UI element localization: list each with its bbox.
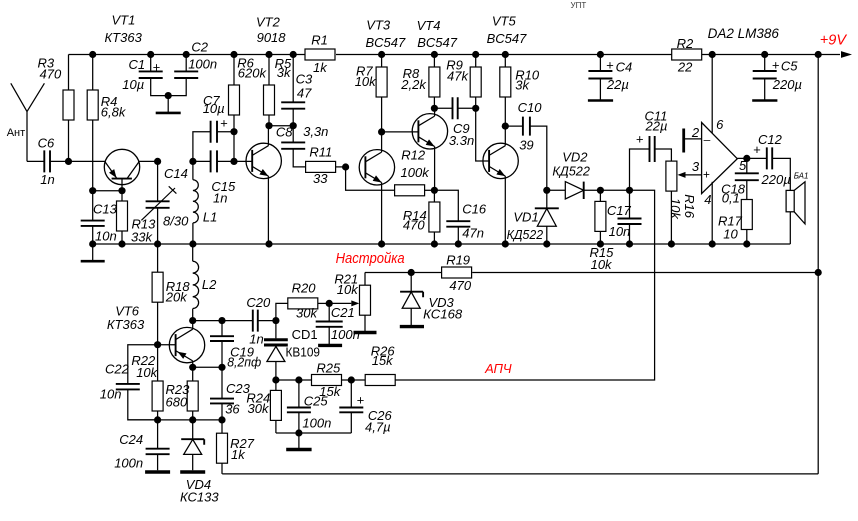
wire R20 left [276, 303, 288, 320]
wire top rail middle [336, 54, 672, 56]
wire C18 leads [746, 158, 748, 199]
wire C24 leads [157, 420, 159, 470]
node R22 bottom [154, 416, 161, 423]
node C17/C11 [626, 187, 633, 194]
wire VT6e to C19 [193, 366, 222, 368]
svg-text:R16: R16 [682, 194, 697, 219]
node C3/C8 [290, 122, 297, 129]
node bus C16 [455, 240, 462, 247]
resistor R11 [306, 161, 336, 172]
svg-text:22µ: 22µ [606, 77, 629, 92]
node CD1 top [272, 317, 279, 324]
resistor R1 [305, 49, 335, 60]
wire VT2c to C3C8 [269, 125, 293, 127]
wire tuning line [365, 272, 818, 274]
svg-text:1n: 1n [213, 190, 227, 205]
wire C14 leads [157, 161, 159, 244]
ground C4 [588, 99, 613, 102]
node C14 top [154, 158, 161, 165]
resistor R23 [187, 381, 198, 411]
svg-text:220µ: 220µ [772, 77, 802, 92]
node C1C2 gnd [165, 92, 172, 99]
wire osc tank [193, 320, 253, 322]
resistor R8 [429, 67, 440, 97]
svg-text:+9V: +9V [820, 33, 848, 49]
node R23 bottom [189, 416, 196, 423]
wire R24 node to R25 [276, 379, 312, 381]
wire C1 leads [151, 55, 169, 96]
node rail pin6 [709, 51, 716, 58]
svg-text:3.3n: 3.3n [449, 133, 474, 148]
node +9V/R19 [815, 269, 822, 276]
wire C2 leads [168, 55, 186, 96]
node C7/R6 bottom [230, 158, 237, 165]
wire R4 leads [92, 55, 94, 191]
node rail R4 [89, 51, 96, 58]
svg-text:R20: R20 [292, 281, 317, 296]
svg-text:10k: 10k [136, 365, 158, 380]
svg-text:УПТ: УПТ [571, 1, 587, 10]
wire R9 leads and VT5 base [476, 55, 489, 162]
svg-text:+: + [153, 60, 161, 75]
svg-text:2,2k: 2,2k [400, 77, 427, 92]
wire C5 leads [764, 55, 766, 100]
wire to C10 [505, 125, 523, 127]
svg-text:R1: R1 [311, 33, 328, 48]
wire R24 leads [275, 380, 277, 433]
inductor L2 [193, 261, 199, 308]
capacitor C18 [735, 173, 759, 180]
svg-text:10k: 10k [337, 282, 359, 297]
capacitor C25 [287, 408, 311, 413]
wire VT1 collector to C14 [139, 160, 158, 162]
node rail R10 [502, 51, 509, 58]
svg-text:КТ363: КТ363 [107, 317, 145, 332]
wire C12 to speaker [772, 158, 790, 190]
node rail R9 [472, 51, 479, 58]
node bus VD1 [543, 240, 550, 247]
svg-text:4,7µ: 4,7µ [365, 419, 391, 434]
node afc gnd [295, 429, 302, 436]
svg-text:C17: C17 [607, 203, 632, 218]
svg-text:C21: C21 [331, 305, 355, 320]
node rail C2 [183, 51, 190, 58]
svg-text:R25: R25 [316, 361, 341, 376]
svg-text:100k: 100k [401, 165, 431, 180]
wire VT6 base lead [158, 344, 176, 346]
wire R20 to C21 [318, 302, 329, 304]
svg-text:47k: 47k [447, 69, 469, 84]
wire C7 left lead [193, 132, 211, 162]
wire C15 to VT2 base [217, 160, 252, 162]
node rail R8 [431, 51, 438, 58]
wire to C9 [434, 107, 452, 109]
svg-text:VT1: VT1 [112, 13, 136, 28]
wire to C15 [193, 160, 211, 162]
resistor R24 [270, 390, 281, 420]
wire R11 to VT3 base [336, 166, 346, 168]
wire pin6 [711, 55, 713, 134]
node bus R13 [118, 240, 125, 247]
C14 trimmer arrow [141, 186, 176, 220]
zener VD3 [410, 273, 412, 326]
transistor VT3 [359, 150, 394, 185]
capacitor C12 [767, 147, 772, 169]
svg-text:Настройка: Настройка [336, 251, 405, 267]
svg-text:620k: 620k [238, 66, 268, 81]
svg-text:10µ: 10µ [203, 101, 225, 116]
resistor R12 [395, 185, 425, 196]
transistor VT6 [169, 327, 204, 362]
node C9/R9 [472, 105, 479, 112]
ground R21 [354, 331, 377, 334]
svg-text:VT4: VT4 [417, 18, 441, 33]
wire R7 leads [381, 55, 383, 132]
node rail C3 [290, 51, 297, 58]
svg-text:C13: C13 [93, 202, 118, 217]
svg-text:VT5: VT5 [492, 14, 517, 29]
wire R13 leads [121, 191, 123, 244]
node R3/C6 [65, 158, 72, 165]
resistor R4 [87, 90, 98, 120]
resistor R14 [429, 202, 440, 232]
resistor R13 [117, 201, 128, 231]
svg-text:1k: 1k [231, 447, 246, 462]
wire VT3 collector [381, 132, 383, 152]
wire osc bottom [128, 419, 222, 421]
resistor R22 [152, 381, 163, 411]
ground C1C2 [167, 96, 169, 113]
capacitor C7 [211, 121, 217, 143]
node rail C4 [597, 51, 604, 58]
capacitor C14 [146, 201, 170, 208]
ground C5 [752, 99, 777, 102]
node bus R16 [668, 240, 675, 247]
wire to VT4 base [382, 131, 419, 133]
node VT6 emitter [189, 364, 196, 371]
transistor VT1 [104, 149, 139, 184]
transistor VT2 [246, 143, 281, 178]
node R4/C13 [89, 187, 96, 194]
svg-text:470: 470 [449, 278, 471, 293]
svg-text:39: 39 [519, 137, 533, 152]
wire R3 leads [68, 55, 70, 162]
transistor VT4 [412, 114, 447, 149]
svg-text:КВ109: КВ109 [286, 345, 321, 360]
transistor VT5 [483, 143, 518, 178]
wire C22 leads [128, 345, 158, 420]
wire output [737, 157, 767, 159]
capacitor C17 [618, 219, 642, 225]
svg-text:8/30: 8/30 [163, 213, 189, 228]
capacitor C19 [210, 336, 234, 341]
wire pin3 [679, 174, 702, 176]
svg-text:C14: C14 [164, 166, 188, 181]
wire L2 leads [192, 244, 194, 321]
wire VT5 emitter [504, 176, 506, 244]
wire VT2 collector [267, 126, 269, 146]
ground AFC [298, 433, 300, 450]
svg-text:47n: 47n [462, 226, 484, 241]
wire R27 leads [221, 420, 223, 474]
wire C20 to CD1 [258, 320, 276, 322]
wire R8 leads [433, 55, 435, 109]
svg-text:CD1: CD1 [292, 327, 318, 342]
svg-text:0,1: 0,1 [722, 190, 740, 205]
wire R25 to R26 [342, 379, 366, 381]
node R7/VT4 base [378, 128, 385, 135]
svg-text:DA2 LM386: DA2 LM386 [708, 26, 780, 41]
capacitor C6 [44, 150, 50, 172]
svg-text:+: + [703, 167, 710, 181]
svg-text:BC547: BC547 [366, 35, 407, 50]
svg-text:C25: C25 [304, 394, 329, 409]
node C19 top [218, 317, 225, 324]
svg-text:1k: 1k [313, 60, 328, 75]
wire R15 leads [599, 190, 601, 244]
capacitor C4 [588, 71, 612, 79]
node rail right [815, 51, 822, 58]
ground C21 [318, 344, 342, 347]
node VD1/VD2 [543, 187, 550, 194]
ground VD4 [180, 470, 205, 473]
svg-text:10k: 10k [355, 74, 377, 89]
wire C4 leads [599, 55, 601, 100]
svg-text:100n: 100n [331, 327, 360, 342]
potentiometer R16 [666, 161, 677, 191]
svg-text:VT2: VT2 [256, 15, 281, 30]
wire L1 leads [192, 161, 194, 244]
wire VT4 emitter [434, 147, 436, 191]
wire VT5 collector [504, 126, 506, 146]
resistor R15 [595, 201, 606, 231]
wire ant to C6 [27, 160, 44, 162]
wire C8 leads [293, 126, 305, 167]
node rail R6 [230, 51, 237, 58]
node L2/VT6c [189, 317, 196, 324]
wire C6 to VT1 [50, 160, 105, 162]
capacitor C23 [210, 399, 234, 404]
wire R6 leads [233, 55, 235, 162]
svg-text:C4: C4 [616, 59, 633, 74]
svg-text:+: + [606, 57, 614, 72]
capacitor C22 [116, 384, 140, 390]
svg-text:КТ363: КТ363 [105, 30, 143, 45]
node bus R17 [743, 240, 750, 247]
svg-text:R2: R2 [677, 36, 694, 51]
resistor R18 [152, 272, 163, 302]
wire pin2 [684, 138, 702, 140]
capacitor C9 [453, 97, 458, 119]
wire afc bottom [276, 432, 351, 434]
capacitor C1 [139, 71, 163, 78]
svg-text:2: 2 [691, 125, 700, 140]
resistor R27 [217, 433, 228, 463]
svg-text:10k: 10k [668, 198, 683, 220]
capacitor C13 [81, 221, 105, 226]
svg-text:470: 470 [403, 218, 425, 233]
diode VD2 [547, 189, 630, 191]
wire R18 leads [157, 244, 159, 345]
svg-text:C20: C20 [246, 295, 271, 310]
svg-text:C5: C5 [781, 59, 798, 74]
capacitor C16 [446, 221, 470, 227]
resistor R3 [63, 90, 74, 120]
svg-text:R19: R19 [446, 252, 470, 267]
wire R17 bottom [746, 230, 748, 245]
wire C11 to R16 [655, 149, 672, 161]
capacitor C8 [281, 142, 305, 148]
wire VT3 emitter [381, 183, 383, 245]
wire C21 leads [328, 303, 330, 344]
svg-text:1n: 1n [40, 172, 54, 187]
diode VD1 [546, 190, 548, 244]
svg-text:47: 47 [297, 85, 312, 100]
svg-text:9018: 9018 [257, 30, 287, 45]
svg-text:+: + [772, 57, 780, 72]
wire top rail right [702, 54, 841, 56]
svg-text:10k: 10k [591, 257, 613, 272]
svg-text:100n: 100n [188, 57, 217, 72]
svg-text:C10: C10 [518, 100, 543, 115]
node VT1 base [118, 187, 125, 194]
capacitor C5 [753, 71, 777, 79]
node C19/C23 [218, 364, 225, 371]
svg-text:C3: C3 [296, 71, 313, 86]
svg-text:C1: C1 [129, 57, 146, 72]
wire pin4 [711, 182, 713, 244]
wire R22 leads [157, 345, 159, 420]
node bus R15 [597, 240, 604, 247]
op-amp DA2 LM386 [702, 123, 738, 194]
svg-text:220µ: 220µ [761, 172, 791, 187]
resistor R5 [264, 85, 275, 115]
ground input stage [92, 244, 94, 261]
svg-text:6,8k: 6,8k [101, 105, 127, 120]
wire C25 leads [298, 380, 300, 433]
svg-text:100n: 100n [302, 416, 331, 431]
node R15 [597, 187, 604, 194]
svg-text:C8: C8 [276, 125, 293, 140]
node bus C13 [89, 240, 96, 247]
wire +9V right down [817, 55, 819, 474]
capacitor C2 [174, 71, 198, 78]
svg-text:R12: R12 [401, 148, 426, 163]
svg-text:10µ: 10µ [122, 77, 144, 92]
resistor R7 [376, 67, 387, 97]
wire VT6 collector [192, 321, 194, 330]
capacitor C26 [339, 408, 363, 413]
svg-text:3k: 3k [515, 77, 530, 92]
svg-text:+: + [220, 116, 228, 131]
ground VD3 [400, 325, 424, 328]
wire R14 leads [433, 190, 435, 244]
wire C9 to R9 [458, 107, 476, 109]
svg-text:15k: 15k [372, 353, 394, 368]
wire common bus [93, 243, 791, 245]
wire VT6 emitter [192, 361, 194, 367]
node bus R14 [431, 240, 438, 247]
node L1 top [189, 158, 196, 165]
+9V arrow [841, 51, 852, 58]
svg-text:22µ: 22µ [645, 119, 668, 134]
svg-text:L2: L2 [202, 277, 217, 292]
potentiometer R21 [360, 285, 371, 315]
wire R10 leads [504, 55, 506, 127]
svg-text:R11: R11 [309, 145, 332, 160]
svg-text:+: + [636, 132, 644, 147]
svg-text:1n: 1n [249, 331, 263, 346]
svg-text:22: 22 [677, 60, 693, 75]
node bus VT2e [265, 240, 272, 247]
wire R12 to node [425, 189, 435, 191]
node bus L1 [189, 240, 196, 247]
svg-text:8,2пф: 8,2пф [227, 355, 261, 370]
svg-text:КС133: КС133 [180, 490, 219, 505]
speaker BA1 [786, 190, 794, 211]
node rail C5 [761, 51, 768, 58]
svg-text:BC547: BC547 [487, 31, 528, 46]
node bus VT5e [502, 240, 509, 247]
svg-text:C6: C6 [38, 136, 55, 151]
wire R23 leads [192, 367, 194, 420]
svg-text:+: + [753, 142, 761, 157]
svg-text:C24: C24 [119, 432, 143, 447]
wire C23 leads [221, 367, 223, 420]
capacitor C20 [253, 310, 258, 332]
resistor R19 [442, 267, 472, 278]
svg-text:10n: 10n [100, 386, 122, 401]
node bus pin4 [709, 240, 716, 247]
R16 wiper arrow [678, 172, 686, 178]
svg-text:3: 3 [692, 159, 700, 174]
wire C3 leads [292, 55, 294, 126]
capacitor C21 [316, 322, 343, 327]
wire top rail left [69, 54, 306, 56]
wire C10 to detector [530, 126, 547, 190]
capacitor C11 [650, 136, 655, 162]
resistor R2 [672, 49, 702, 60]
node bus C14 [154, 240, 161, 247]
wire C17 leads [629, 190, 631, 244]
resistor R6 [229, 85, 240, 115]
zener VD4 [192, 420, 194, 470]
wire C13 leads [92, 191, 94, 244]
node C25 top [295, 376, 302, 383]
svg-text:КД522: КД522 [507, 227, 544, 242]
svg-text:30k: 30k [296, 306, 318, 321]
svg-text:КС168: КС168 [423, 307, 463, 322]
wire R5 leads [268, 55, 270, 126]
wire VT4 collector [434, 108, 436, 116]
svg-text:470: 470 [40, 66, 62, 81]
resistor R17 [741, 200, 752, 230]
node rail R5 [265, 51, 272, 58]
svg-text:Ант: Ант [7, 127, 25, 139]
wire C16 leads [434, 190, 458, 244]
ground C24 [145, 470, 170, 473]
wire bottom return [222, 473, 818, 475]
wire base to R12 [346, 167, 395, 190]
node R8/C9 [431, 105, 438, 112]
node output [743, 155, 750, 162]
svg-text:C22: C22 [105, 362, 130, 377]
svg-text:C12: C12 [758, 132, 783, 147]
node VT2 collector [265, 122, 272, 129]
node VT4e/R12/R14 [431, 187, 438, 194]
svg-text:6: 6 [716, 117, 724, 132]
wire VT2 emitter [267, 176, 269, 244]
